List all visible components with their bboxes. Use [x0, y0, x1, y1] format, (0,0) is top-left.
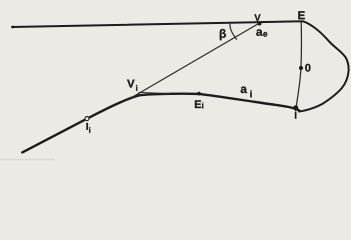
scan streak bottom left — [0, 159, 55, 160]
point Ei dot — [197, 92, 201, 96]
label O — [305, 64, 310, 72]
label beta — [220, 29, 226, 40]
label Ii — [86, 123, 90, 133]
label V — [254, 14, 260, 21]
thin line V to Vi — [130, 23, 260, 99]
label I — [295, 112, 296, 119]
label E — [298, 11, 304, 19]
point Ii open circle — [85, 117, 89, 121]
point O dot — [299, 66, 303, 70]
paper background — [0, 0, 351, 163]
label Vi — [127, 80, 137, 91]
label a_e — [256, 29, 267, 36]
upper surface line (extrados) with rounded trailing-edge cap — [12, 21, 349, 111]
pen start blob — [12, 26, 15, 29]
label a_i — [241, 87, 252, 98]
lower surface curve (intrados) — [22, 94, 299, 153]
thin line E to I — [296, 22, 302, 112]
label Ei — [195, 100, 203, 108]
thin wedge line at Vi — [139, 92, 171, 93]
point V dot — [258, 22, 262, 26]
beta angle arc — [230, 24, 237, 40]
point I dot — [293, 105, 298, 110]
